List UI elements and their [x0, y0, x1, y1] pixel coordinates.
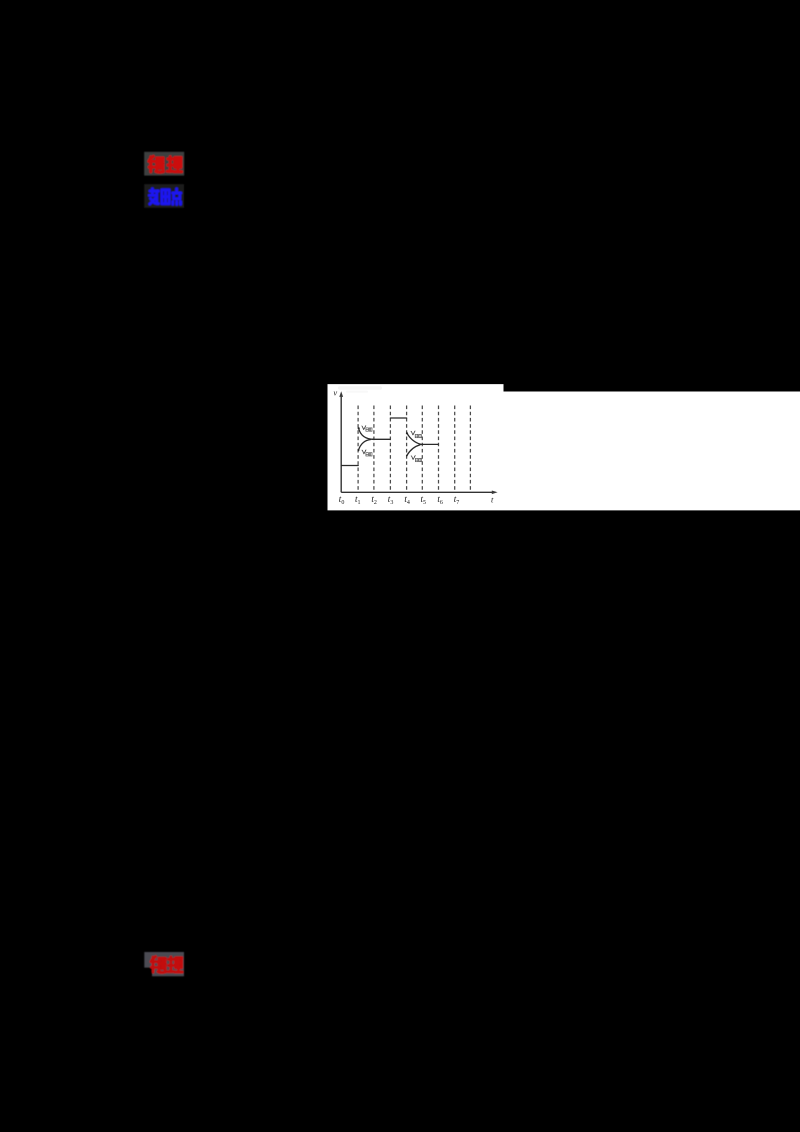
svg-text:v: v [333, 387, 337, 397]
